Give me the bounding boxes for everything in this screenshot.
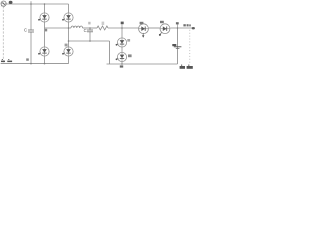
battery E on load leg: [172, 44, 176, 46]
svg-text:C: C: [84, 28, 87, 33]
gate of T8 dot: [160, 32, 162, 34]
wire between inline thyristors: [149, 27, 160, 29]
thyristor T2: [62, 13, 73, 22]
label above T8: [160, 21, 164, 23]
inline thyristor T8: [160, 24, 170, 34]
thyristor T1: [38, 13, 49, 22]
node dot with label on rail: [9, 1, 13, 4]
wire top rail: [6, 3, 68, 5]
label under source: [1, 6, 5, 7]
leg C x=122: [121, 24, 123, 28]
inline thyristor T7: [139, 24, 149, 34]
label T4: [65, 44, 68, 47]
thyristor T5: [116, 38, 127, 47]
wire: [108, 27, 139, 29]
wire: [83, 27, 97, 29]
resistor R: [97, 26, 108, 30]
AC source Vs: [1, 1, 6, 6]
wire mid output y=28: [45, 27, 72, 29]
label above cap node: [88, 22, 90, 25]
label R faint: [102, 22, 105, 25]
label T6: [128, 54, 132, 57]
label vs2 bottom-left: [7, 59, 12, 62]
label above leg C junction: [121, 22, 124, 25]
svg-text:C: C: [24, 28, 27, 33]
label below rail at leg C: [120, 65, 123, 67]
thyristor T4: [62, 47, 73, 56]
gate of T7 down arrow: [142, 33, 144, 36]
bridge leg A vertical x=44.5: [44, 4, 46, 13]
capacitor Cf plates: [28, 29, 34, 31]
right load leg x=177.5: [177, 28, 179, 64]
label T5: [127, 39, 130, 42]
dashed vo line: [189, 30, 191, 63]
label vs1 bottom-left: [1, 59, 5, 62]
thyristor T6: [116, 52, 127, 61]
label vo above wire: [183, 24, 185, 26]
capacitor Cf leg: [30, 1, 32, 4]
wire bottom-right rail: [107, 63, 178, 65]
wire after second inline thyristor: [170, 27, 194, 29]
wire left vertical: [2, 6, 4, 63]
node label b: [45, 29, 47, 32]
label above T7: [140, 22, 144, 24]
capacitor C plates: [87, 29, 93, 31]
bridge leg B vertical x=68.5: [68, 4, 70, 13]
thyristor T3: [38, 47, 49, 56]
junction dots: [30, 3, 178, 65]
tick + label above right junction: [177, 24, 179, 28]
capacitor C leg: [89, 28, 91, 30]
wire down x=109.5: [109, 41, 111, 64]
label near bottom of Cf leg: [26, 58, 29, 60]
wire y41 horizontal: [69, 40, 110, 42]
wire bottom-left rail: [1, 63, 69, 65]
inductor L: [71, 26, 83, 28]
bottom-right caption text: [180, 65, 193, 69]
